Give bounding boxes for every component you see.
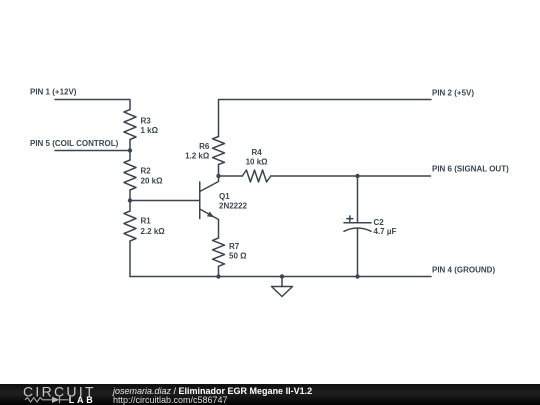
svg-text:50 Ω: 50 Ω xyxy=(229,252,247,261)
svg-text:PIN 1 (+12V): PIN 1 (+12V) xyxy=(30,88,77,97)
svg-text:Q1: Q1 xyxy=(219,192,230,201)
svg-text:4.7 µF: 4.7 µF xyxy=(374,227,397,236)
svg-text:R4: R4 xyxy=(251,148,262,157)
svg-text:2N2222: 2N2222 xyxy=(219,202,248,211)
svg-text:PIN 5 (COIL CONTROL): PIN 5 (COIL CONTROL) xyxy=(30,139,119,148)
svg-text:C2: C2 xyxy=(374,218,385,227)
svg-text:PIN 6 (SIGNAL OUT): PIN 6 (SIGNAL OUT) xyxy=(432,165,509,174)
svg-text:1 kΩ: 1 kΩ xyxy=(141,126,159,135)
svg-text:1.2 kΩ: 1.2 kΩ xyxy=(185,152,210,161)
svg-text:R3: R3 xyxy=(141,117,152,126)
svg-text:LAB: LAB xyxy=(69,395,96,405)
svg-text:2.2 kΩ: 2.2 kΩ xyxy=(141,227,166,236)
svg-text:R6: R6 xyxy=(199,142,210,151)
svg-text:20 kΩ: 20 kΩ xyxy=(141,177,164,186)
svg-text:R2: R2 xyxy=(141,167,152,176)
svg-text:PIN 4 (GROUND): PIN 4 (GROUND) xyxy=(432,266,495,275)
svg-text:10 kΩ: 10 kΩ xyxy=(246,158,269,167)
svg-text:R7: R7 xyxy=(229,242,240,251)
svg-text:R1: R1 xyxy=(141,217,152,226)
svg-text:PIN 2 (+5V): PIN 2 (+5V) xyxy=(432,89,474,98)
